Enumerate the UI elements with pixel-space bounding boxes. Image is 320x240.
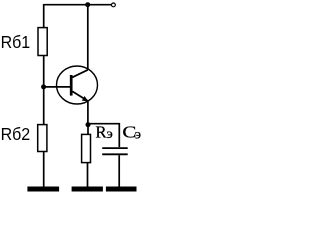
resistor R62	[38, 125, 47, 152]
wire left branch upper	[43, 4, 45, 28]
wire collector vertical	[87, 5, 89, 70]
transistor emitter arrow	[82, 96, 88, 101]
wire emitter vertical	[87, 101, 89, 125]
capacitor top plate	[102, 147, 128, 149]
transistor base bar	[70, 75, 73, 96]
svg-text:Rб2: Rб2	[1, 124, 31, 144]
terminal supply	[112, 3, 116, 7]
wire base	[44, 86, 71, 88]
label Ce	[122, 122, 141, 142]
wire Ce to ground	[118, 155, 120, 187]
capacitor Ce	[102, 148, 128, 154]
transistor emitter lead	[72, 91, 88, 101]
svg-text:э: э	[135, 128, 141, 143]
wire R62 to ground	[43, 152, 45, 188]
label Re	[95, 122, 112, 142]
wire emitter node to capacitor	[88, 124, 119, 147]
resistor R61	[38, 28, 47, 56]
node emitter junction	[86, 122, 91, 127]
wire divider middle	[43, 56, 45, 125]
ground right	[106, 187, 137, 192]
node base junction	[41, 84, 46, 89]
ground left	[27, 187, 59, 192]
transistor VT1	[57, 66, 98, 104]
transistor body circle	[57, 66, 98, 104]
transistor collector lead	[72, 70, 88, 78]
resistor Re	[82, 134, 91, 162]
wire emitter node to Re	[87, 125, 89, 135]
node top junction	[85, 2, 90, 7]
wire top supply rail	[44, 4, 111, 6]
svg-text:э: э	[107, 127, 113, 142]
wire Re to ground	[87, 163, 89, 187]
svg-text:Rб1: Rб1	[1, 32, 31, 52]
capacitor bottom plate	[102, 153, 128, 155]
ground middle	[72, 187, 103, 192]
